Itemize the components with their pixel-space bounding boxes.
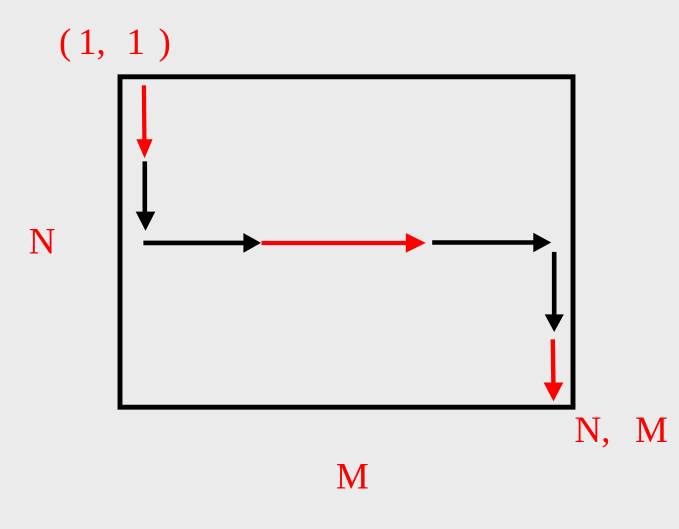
arrow A4: red right arrow xyxy=(262,233,426,253)
svg-text:M: M xyxy=(635,410,668,451)
svg-text:1: 1 xyxy=(127,22,146,63)
arrow A5: black right arrow xyxy=(432,233,551,253)
grid rectangle (matrix border) xyxy=(120,77,573,407)
svg-text:): ) xyxy=(159,22,171,63)
svg-text:N: N xyxy=(29,221,56,262)
svg-text:M: M xyxy=(336,456,369,497)
svg-text:N,: N, xyxy=(575,410,611,451)
arrow A2: black down arrow xyxy=(136,161,156,230)
svg-text:(: ( xyxy=(59,22,71,63)
arrow A3: black right arrow xyxy=(143,233,261,253)
svg-text:1,: 1, xyxy=(78,22,106,63)
arrow A6: black down arrow xyxy=(545,252,564,332)
arrow A1: red down arrow from (1,1) xyxy=(136,85,152,158)
arrow A7: red down arrow into (N,M) xyxy=(544,339,564,401)
